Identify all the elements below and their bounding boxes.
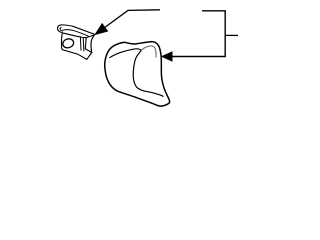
arrowhead 2 (points at cover) [162,52,172,61]
cover part: inner rim line (left to top) [109,49,141,58]
bracket part: top strip outer edge [58,25,96,35]
bracket part: oval hole [62,38,75,49]
bracket part: inner cap fold arc [60,27,63,31]
arrowhead 1 (points at bracket) [95,24,107,35]
leader line 2 (right callout polyline) [171,11,225,57]
bracket part: crease line on strip [63,30,89,37]
leader line 1 (left callout polyline) [97,10,160,33]
bracket part: front tab right edge [79,37,82,51]
bracket part: fold edge to flange [82,38,85,52]
cover part: grey inner rim at top-right [141,46,156,58]
cover part: scoop inner curve [133,50,163,96]
bracket part: front tab outline with V tail [61,33,91,59]
tick branch on vertical leader [225,34,238,36]
bracket part: right flange [85,35,94,52]
cover part: outer outline [105,42,170,106]
bracket part: top strip lower/front edge [57,28,86,37]
